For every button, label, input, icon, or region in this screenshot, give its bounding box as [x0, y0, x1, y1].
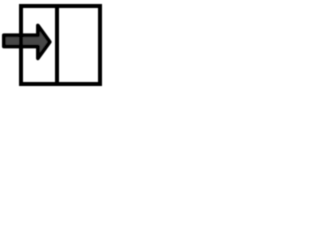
outer box border: [21, 6, 100, 84]
vertical divider between cells: [55, 4, 59, 86]
block arrow (gray fill, black outline) entering left cell: [4, 25, 50, 58]
